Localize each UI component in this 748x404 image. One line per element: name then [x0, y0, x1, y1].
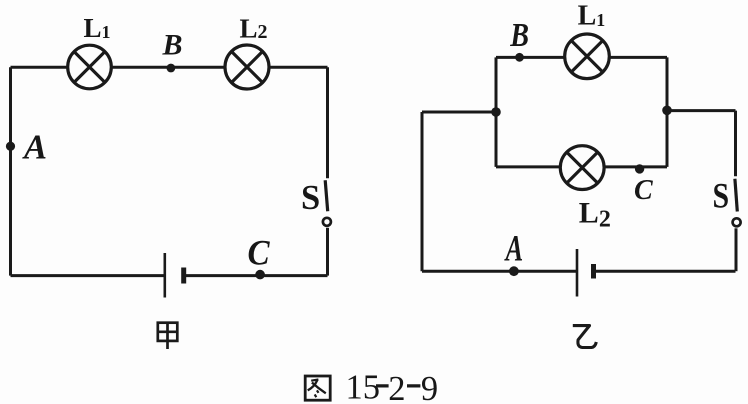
svg-text:2: 2 [388, 370, 405, 404]
svg-text:S: S [301, 179, 320, 217]
svg-text:C: C [634, 175, 653, 206]
svg-text:S: S [713, 177, 730, 216]
svg-text:A: A [504, 227, 523, 269]
svg-text:C: C [248, 233, 271, 273]
svg-text:15: 15 [346, 369, 381, 404]
svg-text:B: B [509, 16, 529, 54]
svg-text:B: B [162, 28, 183, 61]
svg-text:A: A [22, 128, 47, 166]
svg-text:9: 9 [421, 370, 438, 404]
